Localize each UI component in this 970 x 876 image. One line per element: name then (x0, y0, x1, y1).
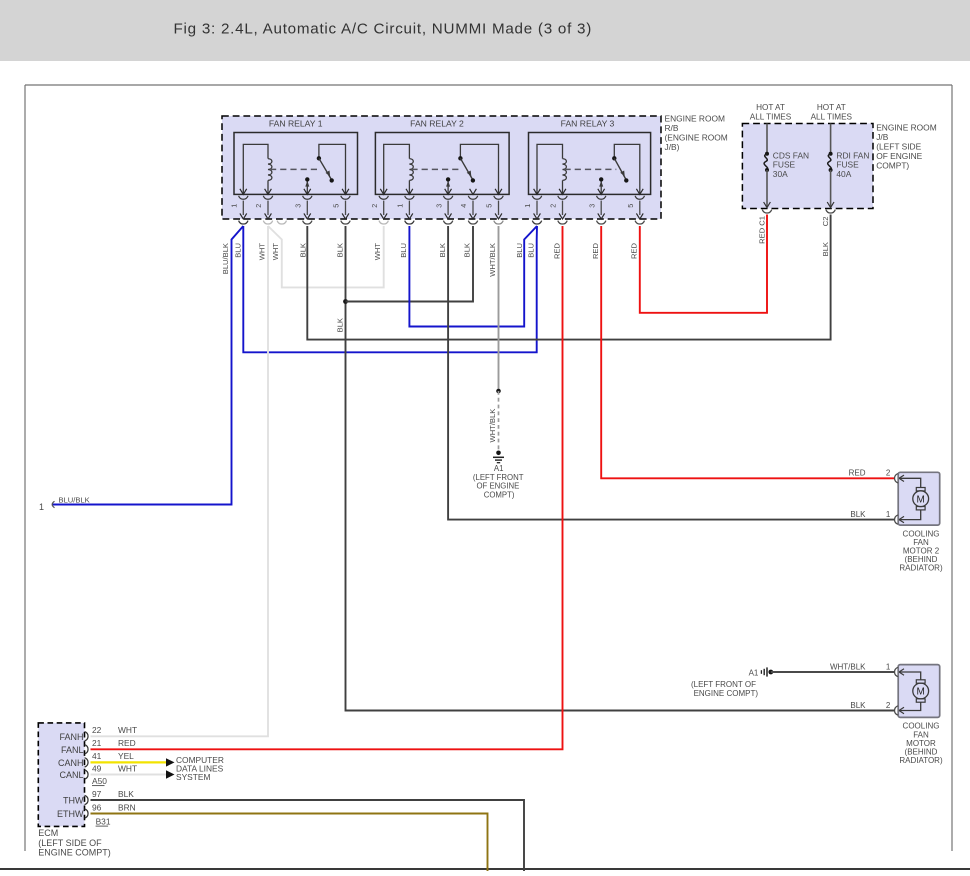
relay FAN RELAY 1 pin 1 terminal (239, 189, 248, 219)
relay FAN RELAY 3 pin 1 terminal (532, 189, 541, 219)
wire BLU/BLK: relay1 pin1 to connector 1 (left) (53, 226, 244, 505)
relay FAN RELAY 1 pin 2 terminal (263, 189, 272, 219)
svg-text:COMPT): COMPT) (484, 490, 515, 499)
ground A1 dot (768, 670, 773, 675)
svg-text:FAN RELAY 2: FAN RELAY 2 (410, 119, 464, 129)
wire BLK: relay1 pin5 to cooling fan motor pin2 (346, 226, 895, 711)
svg-text:BLK: BLK (463, 243, 472, 257)
relay FAN RELAY 2 pin 2 terminal (379, 189, 388, 219)
fuse RDI FAN 40A (827, 124, 834, 208)
relay FAN RELAY 2 pin 4 terminal (468, 189, 477, 219)
svg-text:3: 3 (294, 204, 303, 208)
svg-text:RED: RED (591, 242, 600, 259)
wire YEL: ECM CANH to data lines (91, 761, 167, 763)
relay FAN RELAY 3 switch (612, 144, 640, 194)
ground A1 (left front of engine compt) near motor 1 (761, 667, 767, 676)
relay FAN RELAY 2 coil-to-switch link (dashed) (411, 168, 462, 170)
label COMPUTER DATA LINES SYSTEM (176, 755, 224, 782)
svg-text:BLU: BLU (399, 243, 408, 258)
svg-text:3: 3 (434, 204, 443, 208)
cooling fan motor (cooling fan motor box) (898, 665, 940, 718)
svg-text:(LEFT FRONT: (LEFT FRONT (473, 473, 524, 482)
relay FAN RELAY 2 pin 5 terminal (494, 189, 503, 219)
svg-text:FAN RELAY 1: FAN RELAY 1 (269, 119, 323, 129)
ECM pin THW (97) connector (85, 795, 88, 804)
svg-text:ALL TIMES: ALL TIMES (811, 113, 853, 122)
relay block output connector at x=473.0 (468, 221, 477, 224)
svg-text:BLU: BLU (515, 243, 524, 258)
ECM pin ETHW (96) connector (85, 809, 88, 818)
svg-text:WHT: WHT (271, 243, 280, 261)
wire BLU: relay1 pin1 to relay3 pin1 (243, 226, 537, 352)
svg-text:1: 1 (523, 204, 532, 208)
svg-text:Fig 3: 2.4L, Automatic A/C Cir: Fig 3: 2.4L, Automatic A/C Circuit, NUMM… (174, 21, 593, 38)
relay FAN RELAY 1 (234, 119, 358, 195)
wire BLK branch: junction to relay2 pin4 (346, 226, 474, 302)
cooling fan motor 2 motor symbol M (913, 488, 929, 510)
label (LEFT FRONT OF ENGINE COMPT) center ground (473, 473, 524, 500)
svg-text:HOT AT: HOT AT (817, 103, 846, 112)
relay FAN RELAY 3 (529, 119, 651, 195)
ECM pin FANL (21) connector (85, 745, 88, 754)
wire WHT: ECM CANL to data lines (91, 774, 167, 776)
wire BLK: ECM THW down (91, 800, 525, 871)
svg-text:SYSTEM: SYSTEM (176, 772, 210, 782)
svg-text:BLU/BLK: BLU/BLK (221, 243, 230, 274)
svg-text:3: 3 (587, 204, 596, 208)
HOT AT ALL TIMES (CDS) (750, 103, 792, 121)
relay FAN RELAY 2 fixed contact (446, 177, 450, 194)
svg-text:OF ENGINE: OF ENGINE (476, 482, 519, 491)
svg-text:5: 5 (626, 204, 635, 208)
svg-text:RED: RED (552, 242, 561, 259)
svg-text:WHT/BLK: WHT/BLK (488, 243, 497, 277)
wire BLK: relay1 pin3 to RDI fuse (307, 215, 830, 340)
svg-text:RED: RED (118, 738, 136, 748)
wire BLU: relay2 pin1 to relay3 pin1 (409, 226, 537, 327)
svg-text:C2: C2 (821, 217, 830, 227)
relay block output connector at x=601.2 (597, 221, 606, 224)
svg-text:BLU: BLU (233, 243, 242, 258)
svg-text:41: 41 (92, 751, 102, 761)
svg-text:96: 96 (92, 802, 102, 812)
junction dot on WHT/BLK (496, 389, 501, 394)
svg-text:BLK: BLK (335, 243, 344, 257)
ground symbol A1 (center) (493, 457, 504, 462)
wire WHT: relay1 pin2 to ECM FANH (91, 226, 269, 736)
fuse label RDI FAN (836, 150, 869, 179)
svg-text:HOT AT: HOT AT (756, 103, 785, 112)
svg-text:BLU: BLU (526, 243, 535, 258)
arrow to computer data lines (YEL) (166, 758, 175, 766)
relay FAN RELAY 1 pin 5 terminal (341, 189, 350, 219)
svg-text:RED: RED (849, 469, 866, 478)
label (LEFT FRONT OF ENGINE COMPT) motor ground (691, 680, 758, 698)
svg-text:BLK: BLK (438, 243, 447, 257)
svg-text:(LEFT FRONT OF: (LEFT FRONT OF (691, 680, 756, 689)
wire RED: relay3 pin5 to CDS fuse (640, 215, 767, 313)
cooling fan motor label (899, 722, 943, 765)
relay FAN RELAY 3 pin 3 terminal (597, 189, 606, 219)
relay block output connector at x=345.5 (341, 221, 350, 224)
relay block output connector at x=409.4 (405, 221, 414, 224)
relay FAN RELAY 1 coil (243, 144, 272, 194)
relay block output connector at x=448.1 (443, 221, 452, 224)
svg-text:RADIATOR): RADIATOR) (899, 756, 943, 765)
svg-text:2: 2 (549, 204, 558, 208)
svg-text:49: 49 (92, 763, 102, 773)
svg-text:FANL: FANL (61, 745, 84, 755)
svg-text:CANL: CANL (59, 770, 83, 780)
relay FAN RELAY 3 pin 5 terminal (635, 189, 644, 219)
svg-text:BRN: BRN (118, 802, 136, 812)
ECM box label (38, 828, 111, 857)
relay block output connector at x=498.5 (494, 221, 503, 224)
ECM pin FANH (22) connector (85, 732, 88, 741)
svg-text:5: 5 (485, 204, 494, 208)
relay block output connector at x=562.5 (558, 221, 567, 224)
wire WHT/BLK: ground A1 to cooling fan motor pin1 (771, 671, 895, 673)
svg-text:FANH: FANH (59, 732, 83, 742)
ground dot A1 (center) (496, 451, 501, 456)
svg-text:BLK: BLK (335, 318, 344, 332)
svg-text:2: 2 (254, 204, 263, 208)
svg-text:WHT: WHT (118, 763, 137, 773)
cooling fan motor 2 pin 2 terminal (895, 474, 921, 488)
svg-text:BLK: BLK (850, 701, 866, 710)
ECM connector id B31 (96, 816, 111, 826)
svg-text:2: 2 (886, 469, 891, 478)
svg-text:A1: A1 (494, 464, 504, 473)
svg-text:ENGINE COMPT): ENGINE COMPT) (694, 689, 759, 698)
svg-text:BLU/BLK: BLU/BLK (59, 496, 90, 505)
svg-text:97: 97 (92, 789, 102, 799)
svg-text:ECM: ECM (38, 828, 58, 838)
ECM pin CANH (41) connector (85, 758, 88, 767)
ECM pin CANL (49) connector (85, 770, 88, 779)
svg-text:J/B): J/B) (665, 142, 680, 152)
svg-text:YEL: YEL (118, 751, 134, 761)
svg-text:2: 2 (886, 701, 891, 710)
svg-text:A1: A1 (749, 668, 759, 677)
relay block output connector at x=268 (263, 221, 272, 224)
wire RED: relay3 pin3 to cooling fan motor2 pin2 (601, 226, 895, 478)
relay FAN RELAY 1 fixed contact (305, 177, 309, 194)
svg-text:A50: A50 (92, 776, 107, 786)
svg-text:BLK: BLK (298, 243, 307, 257)
relay FAN RELAY 1 coil-to-switch link (dashed) (270, 168, 321, 170)
engine room R/B label (665, 114, 728, 152)
relay block output connector at x=639.8 (635, 221, 644, 224)
fuse box output connector at x=830.6 (826, 210, 835, 213)
wire WHT: relay1 pin2 to relay2 pin2 (268, 226, 384, 287)
svg-text:THW: THW (63, 796, 84, 806)
svg-text:WHT: WHT (257, 243, 266, 261)
svg-text:RED C1: RED C1 (757, 216, 766, 244)
svg-text:22: 22 (92, 725, 102, 735)
svg-text:B31: B31 (96, 816, 111, 826)
fuse box output connector at x=767.0 (762, 210, 771, 213)
relay FAN RELAY 3 coil (537, 144, 566, 194)
svg-text:5: 5 (332, 204, 341, 208)
cooling fan motor 2 (cooling fan motor box) (898, 472, 940, 525)
relay FAN RELAY 2 pin 1 terminal (405, 189, 414, 219)
svg-text:(LEFT SIDE OF: (LEFT SIDE OF (38, 838, 102, 848)
svg-text:BLK: BLK (821, 242, 830, 256)
fuse label CDS FAN (773, 150, 809, 179)
svg-text:CANH: CANH (58, 758, 84, 768)
connector 1 (left end) (52, 501, 54, 507)
relay FAN RELAY 2 switch (458, 144, 498, 194)
svg-text:M: M (917, 494, 925, 505)
svg-text:BLK: BLK (118, 789, 134, 799)
relay block output connector at x=243.3 (239, 221, 248, 224)
svg-text:1: 1 (886, 510, 891, 519)
svg-text:2: 2 (370, 204, 379, 208)
wire BRN: ECM ETHW down (91, 814, 488, 872)
relay FAN RELAY 2 (375, 119, 509, 195)
engine room J/B fuse box (dashed) (742, 124, 873, 209)
svg-text:WHT/BLK: WHT/BLK (830, 662, 866, 671)
svg-text:FAN RELAY 3: FAN RELAY 3 (561, 119, 615, 129)
svg-text:4: 4 (459, 204, 468, 208)
relay FAN RELAY 2 pin 3 terminal (443, 189, 452, 219)
svg-text:1: 1 (886, 662, 891, 671)
svg-text:21: 21 (92, 738, 102, 748)
relay FAN RELAY 1 switch (317, 144, 346, 194)
svg-text:ALL TIMES: ALL TIMES (750, 113, 792, 122)
svg-text:1: 1 (396, 204, 405, 208)
engine room relay block R/B (dashed box) (222, 116, 661, 219)
HOT AT ALL TIMES (RDI) (811, 103, 853, 121)
svg-text:M: M (917, 687, 925, 698)
ECM connector id A50 (92, 776, 107, 786)
svg-text:30A: 30A (773, 169, 788, 179)
cooling fan motor 2 pin 1 terminal (895, 510, 921, 524)
fuse CDS FAN 30A (764, 124, 771, 208)
relay block output connector at x=307.3 (303, 221, 312, 224)
wire BLK: relay2 pin3 to cooling fan motor2 pin1 (448, 226, 895, 520)
cooling fan motor motor symbol M (913, 680, 929, 702)
relay FAN RELAY 3 fixed contact (599, 177, 603, 194)
junction dot relay1pin5/relay2pin4 (343, 299, 348, 304)
relay block output connector at x=281.8 (277, 221, 286, 224)
svg-text:COMPT): COMPT) (876, 160, 909, 170)
relay block output connector at x=383.7 (379, 221, 388, 224)
relay FAN RELAY 3 coil-to-switch link (dashed) (565, 168, 617, 170)
svg-text:ETHW: ETHW (57, 809, 84, 819)
ECM (dashed box) (38, 723, 84, 827)
relay FAN RELAY 3 pin 2 terminal (558, 189, 567, 219)
engine room J/B label (876, 123, 937, 171)
svg-text:RADIATOR): RADIATOR) (899, 564, 943, 573)
svg-text:1: 1 (39, 502, 44, 512)
relay FAN RELAY 2 coil (384, 144, 414, 194)
wire WHT/BLK: relay2 pin5 to ground A1 (498, 226, 500, 391)
relay block output connector at x=537.0 (532, 221, 541, 224)
svg-text:ENGINE COMPT): ENGINE COMPT) (38, 847, 111, 857)
svg-text:WHT/BLK: WHT/BLK (488, 409, 497, 443)
svg-text:1: 1 (230, 204, 239, 208)
svg-text:WHT: WHT (373, 243, 382, 261)
wire WHT/BLK dashed segment to ground (498, 391, 500, 452)
cooling fan motor 2 label (899, 529, 943, 572)
cooling fan motor pin 1 terminal (895, 667, 921, 680)
svg-text:40A: 40A (836, 169, 851, 179)
cooling fan motor pin 2 terminal (895, 702, 921, 715)
svg-text:RED: RED (630, 242, 639, 259)
relay FAN RELAY 1 pin 3 terminal (303, 189, 312, 219)
svg-text:BLK: BLK (850, 510, 866, 519)
arrow to computer data lines (WHT) (166, 770, 175, 778)
svg-text:WHT: WHT (118, 725, 137, 735)
wire RED: relay3 pin2 to ECM FANL (91, 226, 563, 749)
